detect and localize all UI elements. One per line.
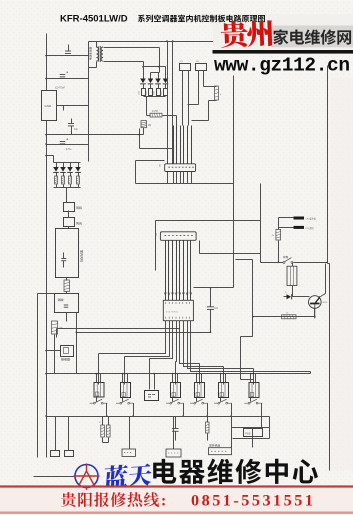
footer center text	[153, 459, 318, 484]
node psu5	[45, 155, 47, 157]
wire sw right	[294, 262, 328, 264]
wire h 332	[77, 332, 211, 334]
wire driver drop 2	[124, 357, 126, 385]
inductor L2 choke	[64, 280, 70, 292]
diode D3 bridge	[155, 79, 161, 84]
wire bend into CN4	[140, 129, 173, 149]
connector CN5 housing	[160, 232, 196, 241]
logo guizhou text	[220, 19, 273, 47]
wire R7 down	[143, 128, 145, 135]
wire fan to choke	[66, 278, 68, 281]
title cjk text	[138, 15, 265, 23]
filter box	[55, 294, 79, 313]
wire sw left	[261, 262, 284, 264]
wire RL4 feed a	[196, 374, 198, 383]
connector CN4 pins	[169, 166, 194, 168]
wire h 259	[236, 259, 253, 261]
capacitor C4 470uF	[60, 141, 66, 143]
footer lantian text	[103, 463, 152, 489]
wire filter down	[66, 313, 68, 322]
diode D2 bridge	[148, 79, 154, 84]
node psu2	[45, 78, 47, 80]
wire R6 down	[54, 335, 56, 374]
wire L1 top lead	[204, 86, 217, 88]
node bend	[138, 134, 140, 136]
relay RL2 contact	[120, 402, 122, 404]
wire psu h2	[47, 78, 89, 80]
label switch	[283, 256, 288, 258]
node buzzer	[153, 373, 155, 375]
wire driver drop 1	[98, 354, 100, 385]
resistor R2 103	[55, 176, 58, 184]
wire contact drop 4	[207, 404, 209, 417]
wire RL3 feed b	[177, 374, 179, 383]
relay RL6 coil	[287, 266, 297, 285]
svg-text:CN: CN	[156, 232, 158, 236]
connector CN11	[51, 451, 60, 457]
wire bridge D4 stub	[165, 67, 167, 79]
svg-text:470u: 470u	[66, 148, 72, 151]
capacitor C2 470uF	[60, 74, 66, 76]
wire h 253	[200, 253, 261, 255]
wire right drop 240	[233, 76, 235, 288]
wire diode D6 lead	[63, 173, 65, 177]
wire bridge D1 stub	[143, 67, 145, 79]
wire IC1 out	[57, 105, 89, 107]
wire RL5 contact lead	[220, 398, 222, 402]
relay RL4 coil	[195, 383, 205, 398]
wire CN2-CN3	[68, 211, 70, 218]
capacitor C9	[207, 306, 214, 308]
transistor Q1	[309, 296, 322, 309]
wire driver drop 6	[223, 367, 225, 385]
node bus373 drop	[97, 373, 99, 375]
label transformer	[89, 47, 91, 60]
jumper box	[244, 429, 263, 437]
right margin tint	[331, 78, 353, 470]
wire CN4 out 2	[176, 172, 178, 184]
wire R10 leads	[103, 417, 109, 443]
wire CN3 down	[68, 227, 70, 229]
wire Q1 collector	[321, 264, 326, 297]
diode D4 bridge	[163, 79, 169, 84]
wire buzzer feed	[154, 374, 156, 390]
pin tick 7	[186, 293, 188, 296]
relay RL3 coil	[171, 383, 181, 398]
node v252 cross	[252, 316, 254, 318]
node psu1	[45, 55, 47, 57]
wire MCU out 1	[99, 321, 166, 354]
wire v 56 down	[56, 329, 58, 338]
diode D8	[75, 167, 81, 172]
footer hotline cjk	[61, 492, 159, 507]
main board outline left	[88, 42, 90, 162]
wire MCU out 6	[184, 321, 224, 367]
node bridge b	[158, 66, 160, 68]
wire CN8 feed	[129, 417, 131, 450]
label CN2 fan	[76, 206, 82, 209]
wire CN4 out 6	[191, 172, 193, 184]
wire bus 373	[47, 373, 311, 375]
wire contact drop 2	[133, 404, 135, 417]
wire bridge down	[146, 97, 148, 116]
MCU U1 bottom pin row	[166, 317, 190, 319]
wire CX2 lead b	[203, 71, 205, 87]
pin tick 6	[182, 293, 184, 296]
node RL2 a	[122, 373, 124, 375]
wire RL1 feed b	[100, 374, 102, 383]
wire RL6 feed a	[250, 374, 252, 383]
node bus373 left	[45, 373, 47, 375]
wire RL5 feed b	[225, 374, 227, 383]
diode D5	[53, 167, 59, 172]
wire bus 416	[47, 417, 270, 439]
capacitor C10	[172, 428, 179, 430]
svg-text:1000: 1000	[153, 91, 155, 95]
pin tick 5	[179, 293, 181, 296]
wire diode D8 lead	[78, 173, 80, 177]
wire Q1 emitter	[314, 309, 316, 317]
relay RL3 contact	[170, 402, 172, 404]
connector CN5 pins	[165, 235, 193, 237]
capacitor C3 10uF	[68, 123, 74, 125]
resistor R7 10k 1W	[141, 121, 147, 128]
wire rect2 bottom bus	[54, 187, 81, 189]
switch SW1 emergency	[283, 261, 285, 263]
diode D1 bridge	[140, 79, 146, 84]
wire v 252	[252, 260, 254, 337]
wire CN4 out 3	[180, 172, 182, 184]
wire MCU out 3	[150, 321, 173, 359]
wire bridge D3 lead	[158, 85, 160, 89]
footer red rule	[0, 485, 353, 487]
svg-text:www.gz112.cn: www.gz112.cn	[214, 55, 350, 77]
wire h 317	[253, 316, 315, 318]
wire diode D7 stub	[70, 163, 72, 168]
resistor R8	[276, 229, 281, 240]
wire CN4 in 2	[176, 126, 178, 164]
wire CX1 lead a	[182, 71, 184, 126]
wire CN4 in 4	[183, 126, 185, 164]
wire IC1 stub	[63, 106, 65, 111]
node RL5 a	[220, 373, 222, 375]
wire receiver left	[47, 350, 61, 352]
IR receiver box	[61, 346, 74, 357]
label fan motor	[80, 250, 83, 262]
node RL1 a	[95, 373, 97, 375]
relay RL1 coil	[94, 383, 104, 398]
wire RL1 feed a	[96, 374, 98, 383]
wire bridge D1 lead	[143, 85, 145, 89]
buzzer BZ1	[145, 391, 159, 401]
svg-text:GND: GND	[45, 104, 53, 108]
node bus373 drop	[253, 373, 255, 375]
diode D7	[67, 167, 73, 172]
wire bridge D3 stub	[158, 73, 160, 79]
wire bottom right box	[241, 337, 254, 385]
wire R8 down	[278, 241, 280, 263]
wire buzzer drop	[149, 359, 151, 390]
svg-text:4 5 6 7 8 9 0 1: 4 5 6 7 8 9 0 1	[166, 312, 178, 314]
wire T1 primary top	[96, 42, 98, 48]
wire CN4 out 5	[187, 172, 189, 184]
IR receiver window	[64, 348, 69, 354]
connector CN12	[65, 451, 74, 457]
node RL3 a	[172, 373, 174, 375]
wire top vert 2	[172, 42, 174, 164]
wire CN4 in 3	[180, 126, 182, 164]
wire v 155	[155, 221, 157, 271]
wire coil top	[292, 263, 294, 267]
wire bridge inner step	[151, 73, 160, 79]
logo backdrop	[213, 14, 353, 49]
wire driver drop 5	[199, 364, 201, 385]
wire contact drop 5	[231, 404, 233, 448]
wire RL3 feed a	[172, 374, 174, 383]
wire bar1 left	[279, 217, 294, 219]
wire R1 right	[147, 116, 177, 135]
wire cap mcu v	[210, 288, 212, 333]
capacitor C1	[65, 50, 71, 52]
wire CX2 lead a	[188, 71, 199, 105]
node top2	[172, 40, 174, 42]
wire bus link	[38, 293, 55, 295]
wire h 328	[57, 328, 180, 330]
wire R12 leads	[207, 417, 209, 441]
resistor R6 10k	[51, 321, 57, 334]
wire v 260	[260, 184, 262, 263]
wire rect2 down	[66, 188, 68, 203]
label receiver	[61, 358, 70, 361]
MCU U1 top pin row	[166, 302, 190, 304]
wire C1 lead	[68, 45, 70, 52]
wire bridge top bus	[144, 66, 166, 68]
node RL4 a	[196, 373, 198, 375]
pin tick 3	[172, 293, 174, 296]
regulator IC1 7805 box	[42, 91, 57, 121]
label CN10	[209, 444, 220, 447]
resistor R11	[107, 425, 111, 437]
wire RL1 contact lead	[96, 398, 98, 402]
diode D6	[60, 167, 66, 172]
wire R3 lead	[63, 185, 65, 188]
wire MCU out 4	[176, 321, 177, 362]
transformer T1 core	[99, 46, 101, 62]
connector CN3 fan dir	[64, 218, 75, 227]
wire T1 primary bottom	[89, 62, 97, 68]
svg-text:0851-5531551: 0851-5531551	[191, 492, 315, 510]
wire CN5 to MCU 7	[187, 241, 189, 301]
svg-text:1000: 1000	[138, 91, 140, 95]
capacitor CX2 box	[196, 64, 207, 71]
pin tick 4	[175, 293, 177, 296]
wire RL2 feed a	[122, 374, 124, 383]
svg-text:1000: 1000	[146, 91, 148, 95]
indoor fan motor box	[56, 229, 79, 278]
svg-text:1000: 1000	[161, 91, 163, 95]
resistor R9	[282, 315, 296, 319]
wire long h 183	[136, 183, 234, 185]
inductor L1	[215, 86, 219, 100]
relay RL6 coil	[249, 383, 259, 398]
connector pin bar CN7	[294, 226, 305, 229]
capacitor C7 1000uF	[142, 89, 146, 96]
wire drop right	[310, 372, 312, 374]
node sw right	[326, 262, 328, 264]
wire bar join	[278, 218, 280, 230]
wire bridge bottom bus	[144, 96, 166, 98]
wire left main bus	[46, 34, 48, 458]
node top1	[166, 40, 168, 42]
node cap mcu top	[210, 287, 212, 289]
transformer T1 primary	[97, 47, 99, 61]
node sw	[277, 262, 279, 264]
wire choke down	[66, 292, 68, 294]
wire L1 bottom lead	[192, 101, 217, 121]
wire D9 to base	[284, 296, 310, 298]
capacitor C5 fan	[61, 258, 66, 260]
wire CN4 in 5	[187, 126, 189, 164]
resistor R10	[101, 425, 105, 437]
relay RL5 contact	[218, 402, 220, 404]
connector CN9	[166, 449, 181, 457]
wire sub-box edge	[136, 161, 165, 184]
wire v 76 down	[76, 313, 78, 374]
node bus416 drop	[182, 415, 184, 417]
relay RL2 coil	[121, 383, 131, 398]
wire CN5 to MCU 2	[168, 241, 170, 301]
pin tick 8	[190, 293, 192, 296]
main board outline right	[328, 66, 330, 471]
capacitor CX1 box	[180, 64, 191, 71]
pin tick 1	[164, 293, 166, 296]
wire CN5 to MCU 1	[165, 241, 167, 301]
capacitor C10 1000uF	[164, 89, 168, 96]
wire diode D5 stub	[56, 163, 58, 168]
wire CN5 to MCU 6	[183, 241, 185, 301]
bottom pink strip	[0, 488, 353, 512]
wire psu top h	[47, 55, 89, 57]
relay RL6 contact	[248, 402, 250, 404]
wire CN5 to MCU 8	[190, 241, 192, 301]
wire footer stub	[34, 476, 76, 478]
node bus416 left	[45, 415, 47, 417]
node bus416 drop	[106, 415, 108, 417]
wire MCU out 7	[188, 321, 254, 369]
wire RL3 contact lead	[172, 398, 174, 402]
wire rect2 top bus	[54, 162, 81, 164]
wire RL2 contact lead	[122, 398, 124, 402]
wire T1 secondary lead top	[104, 48, 160, 73]
node 76	[76, 331, 78, 333]
wire coil bottom	[292, 286, 294, 297]
wire contact drop 6	[253, 404, 262, 448]
connector CN4 housing	[165, 164, 196, 172]
wire CN4 in 6	[191, 126, 193, 164]
connector CN10 outdoor	[209, 448, 232, 455]
node bus373 drop	[223, 373, 225, 375]
wire RL2 feed b	[127, 374, 129, 383]
wire CN9 feed	[173, 417, 175, 450]
resistor R5 103	[77, 176, 80, 184]
node bus373 drop	[124, 373, 126, 375]
relay RL1 contact	[93, 402, 95, 404]
wire diode D6 stub	[63, 163, 65, 168]
wire MCU out 5	[180, 321, 200, 364]
diode D9	[287, 294, 292, 299]
wire R2 lead	[56, 185, 58, 188]
wire MCU out 8	[191, 321, 311, 372]
node bridge a	[142, 66, 144, 68]
node psu4	[45, 143, 47, 145]
wire rect2 feed	[47, 156, 54, 163]
relay RL5 coil	[219, 383, 229, 398]
wire RL4 contact lead	[196, 398, 198, 402]
relay RL4 contact	[194, 402, 196, 404]
logo jiadian text	[273, 29, 351, 44]
wire RL6 contact lead	[250, 398, 252, 402]
wire psu bottom h	[47, 134, 144, 136]
node bus416 drop	[230, 415, 232, 417]
wire top vert 1	[167, 42, 169, 184]
wire v 199	[199, 241, 201, 254]
wire C10 leads	[175, 417, 177, 441]
wire T1 secondary lead bottom	[104, 62, 144, 67]
wire RL5 feed a	[220, 374, 222, 383]
svg-text:CN: CN	[160, 163, 162, 167]
resistor R12	[206, 422, 210, 433]
wire bar2 left	[279, 227, 294, 229]
capacitor C9 1000uF	[157, 89, 161, 96]
wire RL6 feed b	[255, 374, 257, 383]
wire bridge D4 lead	[165, 85, 167, 89]
wire CN5 to MCU 3	[172, 241, 174, 301]
node bus373 drop	[175, 373, 177, 375]
svg-text:10u: 10u	[74, 128, 79, 131]
MCU U1 box	[163, 300, 193, 320]
logo black bar	[213, 50, 353, 54]
logo gray block	[271, 26, 353, 48]
svg-text:(C)470uF: (C)470uF	[55, 87, 66, 90]
wire second left bus	[37, 294, 39, 458]
wire MCU top right	[194, 287, 234, 289]
wire diode D5 lead	[56, 173, 58, 177]
wire driver drop 4	[175, 362, 177, 385]
footer logo glyph	[74, 464, 100, 491]
node rcv	[45, 350, 47, 352]
svg-text:9014: 9014	[323, 302, 329, 304]
pin tick 2	[168, 293, 170, 296]
svg-text:KFR-4501LW/D: KFR-4501LW/D	[60, 14, 128, 25]
node bus416 drop	[206, 415, 208, 417]
node e	[314, 316, 316, 318]
wire C3 leads	[71, 119, 73, 135]
wire contact drop 3	[183, 404, 185, 417]
svg-text:R 2W: R 2W	[152, 111, 159, 113]
wire C5 leads	[63, 253, 65, 268]
node psu3	[45, 134, 47, 136]
node RL6 a	[250, 373, 252, 375]
resistor R1 2W	[150, 113, 162, 117]
wire CN5 to MCU 4	[176, 241, 178, 301]
transformer T1 secondary	[101, 47, 103, 61]
wire R4 lead	[70, 185, 72, 188]
wire CN4 out 1	[173, 172, 175, 184]
label CN3 dir	[76, 222, 82, 225]
main board outline top	[89, 41, 214, 43]
footer logo circle	[75, 465, 98, 488]
wire bridge D2 lead	[150, 85, 152, 89]
